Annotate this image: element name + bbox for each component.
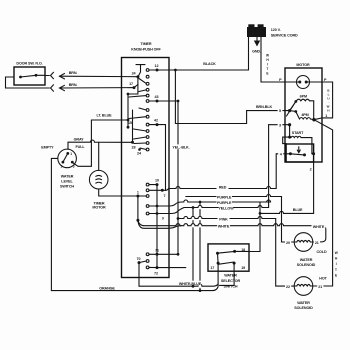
svg-text:42: 42 [154,118,158,122]
motor centrifugal switch [289,147,315,157]
label 5 [278,107,283,113]
svg-text:10: 10 [155,179,159,183]
timer contact 42 [149,118,166,126]
label WATER LEVEL SWITCH [60,175,74,189]
svg-text:I: I [267,63,268,67]
svg-text:PINK: PINK [219,218,228,222]
svg-text:WATER: WATER [300,258,313,262]
wire motor terminal 2 [310,162,314,213]
svg-text:20: 20 [286,241,290,245]
ground symbol GND [252,37,261,53]
svg-text:E: E [335,273,337,277]
svg-text:21: 21 [318,285,322,289]
motor terminal 4 [276,151,290,157]
timer contact 12 [149,64,159,72]
label COLD [316,250,326,254]
motor terminal 1 [314,114,327,120]
label HOT [319,277,327,281]
timer node 17 [129,82,138,89]
svg-text:WHITE: WHITE [218,225,230,229]
wire P to 1 external [322,82,333,118]
svg-text:BRN.: BRN. [69,71,78,75]
wire BLUE to motor 2 [259,208,314,215]
wire WHITE-BLUE to selector 17 [139,281,218,287]
motor protector [297,76,310,89]
connector (disconnect) bottom [51,85,54,91]
svg-text:1: 1 [325,114,327,118]
timer link 42 to 7 vertical [165,125,167,191]
svg-text:5: 5 [279,109,281,113]
svg-text:WHITE: WHITE [313,225,325,229]
svg-text:LT. BLUE: LT. BLUE [96,114,112,118]
svg-text:E: E [266,72,268,76]
svg-text:22: 22 [286,285,290,289]
svg-text:21: 21 [315,241,319,245]
door switch SW1 DOOR SW. N.O. [14,62,45,85]
wire fan curve node 1 lower [138,220,181,228]
wire V3 drop to white-blue [192,208,194,287]
svg-text:WHITE-BLUE: WHITE-BLUE [179,282,202,286]
timer node 1 drop [136,196,139,222]
svg-text:BRN.: BRN. [69,83,78,87]
label 22 [285,284,291,289]
svg-text:ORANGE: ORANGE [99,286,115,290]
timer contact 10 [149,179,159,187]
svg-text:43: 43 [155,95,159,99]
timer link wire left [127,93,130,129]
svg-text:W: W [266,54,269,58]
label WHITE right [312,224,326,229]
svg-text:HOT: HOT [319,277,327,281]
label FULL [75,145,85,149]
wire GRAY water level 1 to timer 28 [68,137,133,149]
motor box MOTOR [285,63,322,162]
svg-text:H: H [327,109,329,113]
wire BLACK timer 12 to cord [159,62,249,70]
hot water solenoid [294,277,313,296]
svg-text:BRN-BLK: BRN-BLK [256,105,273,109]
svg-text:PURPLE: PURPLE [217,196,232,200]
timer lower contact column [146,183,149,215]
label 21 cold [314,240,320,245]
water selector switch box [208,244,249,271]
svg-text:DOOR SW. N.O.: DOOR SW. N.O. [16,62,42,66]
wire PINK timer 71/43 riser [177,100,180,256]
motor winding 6PM [296,94,314,119]
node purple junction V4 [199,201,202,204]
selector arm top [216,251,235,263]
svg-text:12: 12 [155,64,159,68]
svg-text:BLUE: BLUE [293,208,303,212]
svg-text:W: W [335,251,338,255]
timer contact column (open contacts) [146,69,149,151]
svg-text:GRAY: GRAY [74,137,85,141]
label 20 [285,240,291,245]
label WHITE vertical neutral [335,251,338,277]
svg-text:BLACK: BLACK [203,62,216,66]
svg-text:SOLENOID: SOLENOID [294,306,313,310]
wire ORANGE along bottom [51,286,218,290]
svg-text:71: 71 [155,248,159,252]
svg-text:T: T [266,67,268,71]
wire service cord black lead [248,37,250,70]
label WATER SOLENOID hot [294,301,313,310]
motor winding 4PM [296,112,314,120]
svg-text:4PM: 4PM [301,113,308,117]
svg-text:15: 15 [128,121,132,125]
wire BRN-BLK branch to motor 5 [175,70,285,124]
motor centrifugal switch box [286,144,314,162]
svg-text:9: 9 [162,216,164,220]
svg-text:SWITCH: SWITCH [60,185,74,189]
svg-text:SERVICE CORD: SERVICE CORD [271,34,298,38]
svg-text:FULL: FULL [75,145,85,149]
timer contact 43 [149,95,178,103]
wire hot solenoid 21 to white neutral [313,284,333,289]
node BLACK branch [174,69,177,72]
selector contact 19 [218,262,245,270]
timer contact row A [149,205,158,208]
wire WHITE node1 to cold solenoid 21 [138,220,326,242]
svg-text:SOLENOID: SOLENOID [297,263,316,267]
timer node 1 [136,190,146,197]
svg-text:3: 3 [279,123,281,127]
svg-text:START: START [292,131,304,135]
timer contact 70 [137,257,149,264]
label YEL.-BLK. [172,144,190,149]
svg-text:WATER: WATER [297,301,310,305]
svg-text:7: 7 [164,194,166,198]
timer link wire 15 [128,110,134,144]
svg-text:17: 17 [129,82,133,86]
connector (disconnect) top [51,72,54,78]
svg-text:WATER: WATER [224,274,237,278]
wire selector 19 drop [220,264,235,285]
svg-text:2: 2 [310,167,312,171]
timer contact row B with 9 [149,212,164,220]
svg-text:KNOB-PUSH OFF: KNOB-PUSH OFF [131,47,161,51]
timer link vertical 10-71-72 [156,185,158,268]
svg-text:LEVEL: LEVEL [61,180,73,184]
water level switch [58,149,77,168]
timer cam T symbol [136,65,145,77]
svg-text:70: 70 [137,257,141,261]
timer motor [89,170,108,189]
selector contact 18 [233,248,249,253]
svg-text:120 V.: 120 V. [271,28,281,32]
wire PURPLE lower to selector 18 [159,200,271,252]
service cord plug 120V [247,24,298,37]
svg-text:COLD: COLD [316,250,326,254]
wire BRN bottom with arrow to timer 17 [60,83,135,91]
wire BRN top with arrow to timer 24 [60,71,138,79]
selector contact 17 [210,262,219,270]
node yellow junction V3 [192,206,195,209]
timer label 28 [132,145,136,149]
motor terminal P right [310,78,328,82]
motor winding START [283,125,312,154]
svg-text:T: T [335,268,337,272]
wire LT. BLUE to timer [91,114,128,121]
wire timer motor top lead [98,142,100,170]
svg-text:3: 3 [73,164,75,168]
timer contact 71 [146,248,178,255]
svg-text:EMPTY: EMPTY [41,146,54,150]
wire service cord white lead to motor P [261,37,297,82]
svg-text:19: 19 [241,266,245,270]
label WATER SELECTOR SWITCH [221,274,241,289]
svg-text:YELLOW: YELLOW [218,207,234,211]
svg-text:MOTOR: MOTOR [296,63,310,67]
node V3 white-blue junction [192,285,195,288]
wire timer motor bottom lead to node 1 [99,189,137,196]
svg-text:72: 72 [154,271,158,275]
wire RED timer 7 to motor 4 [166,154,277,191]
label TIMER MOTOR [92,202,106,210]
svg-text:1: 1 [137,190,139,194]
wire door switch left loop [6,77,50,88]
svg-text:I: I [336,262,337,266]
svg-text:GND.: GND. [252,49,261,53]
wire motor node 1 diagonal to white neutral [314,120,333,286]
wire YELLOW to motor 3 [159,125,269,214]
motor terminal P left [279,78,282,82]
cold water solenoid [294,233,313,252]
timer node 24 lower [137,148,142,155]
svg-text:6PM: 6PM [300,94,307,98]
wire water level 2 EMPTY drop [51,158,57,290]
timer contact arms upper block [129,79,146,150]
wire door switch right lead to connector [37,74,49,76]
svg-text:RED: RED [219,186,227,190]
timer bus wire [128,77,138,94]
wire PURPLE upper to cold solenoid 20 [186,194,294,242]
timer box TIMER KNOB-PUSH OFF [122,42,170,278]
svg-text:17: 17 [210,266,214,270]
wire water level 3 FULL riser [73,120,91,166]
timer contact 7 [149,189,166,198]
wire timer 70 drop [138,263,140,287]
label WATER SOLENOID cold [297,258,316,267]
wire selector 17 drop [217,264,219,286]
svg-text:MOTOR: MOTOR [92,206,106,210]
motor terminal 3 [269,122,292,128]
timer node 24 [132,72,140,79]
timer contact 72 [146,266,186,275]
svg-text:TIMER: TIMER [141,42,152,46]
svg-text:PURPLE: PURPLE [217,201,232,205]
wire V4 drop to orange [199,202,202,292]
svg-text:WATER: WATER [61,175,74,179]
motor speed switch terminal 5 [285,100,297,116]
wire PINK to hot solenoid 22 [178,216,294,286]
label EMPTY [41,146,54,150]
motor node 1 junction [312,118,315,121]
svg-text:YEL.-BLK.: YEL.-BLK. [172,146,189,150]
svg-text:1: 1 [70,152,72,156]
svg-text:SELECTOR: SELECTOR [221,279,241,283]
svg-text:2: 2 [61,164,63,168]
svg-text:28: 28 [132,145,136,149]
